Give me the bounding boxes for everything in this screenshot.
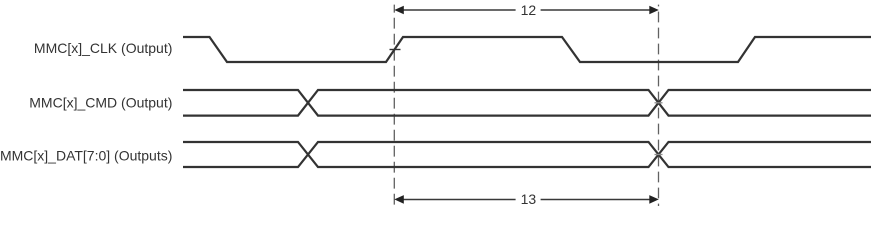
- svg-text:12: 12: [521, 2, 537, 18]
- svg-text:MMC[x]_CMD (Output): MMC[x]_CMD (Output): [29, 95, 172, 111]
- svg-text:MMC[x]_DAT[7:0] (Outputs): MMC[x]_DAT[7:0] (Outputs): [0, 148, 172, 164]
- svg-text:13: 13: [521, 191, 537, 207]
- svg-text:MMC[x]_CLK (Output): MMC[x]_CLK (Output): [34, 40, 172, 56]
